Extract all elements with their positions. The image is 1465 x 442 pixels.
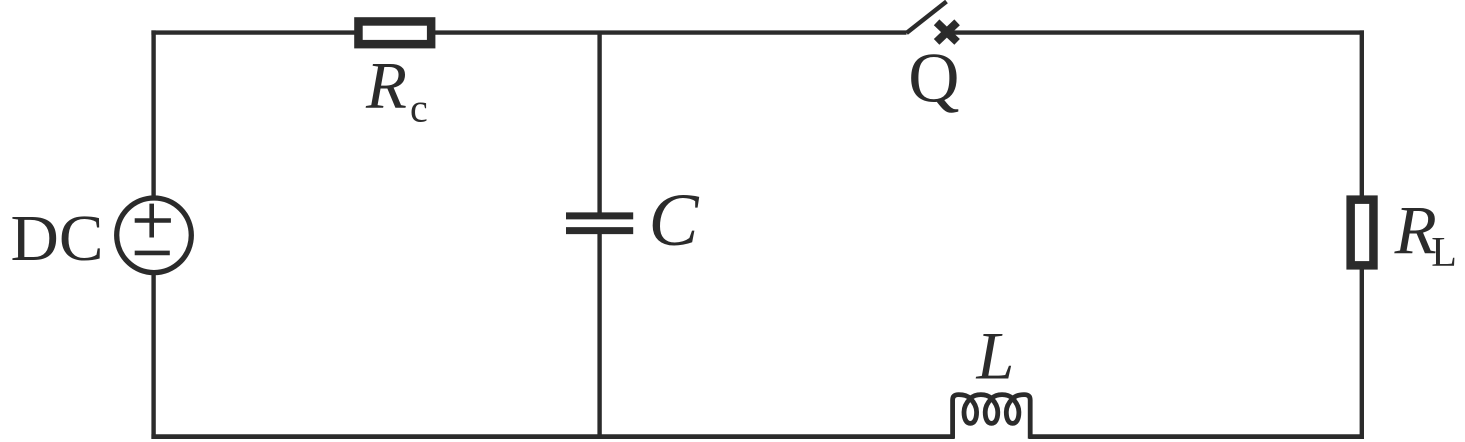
capacitor C bottom plate — [566, 227, 633, 234]
wire right vertical upper (top corner to RL) — [1360, 30, 1364, 199]
resistor Rc (hollow box) — [358, 21, 431, 44]
switch Q cross mark — [937, 22, 958, 42]
svg-text:C: C — [649, 179, 700, 262]
plus sign inside DC source — [135, 204, 171, 238]
wire bottom-left horizontal (DC- to inductor) — [151, 434, 954, 439]
svg-text:Q: Q — [908, 40, 959, 118]
svg-text:L: L — [976, 318, 1015, 394]
wire top-left horizontal (node from DC+ through Rc to node A) — [151, 30, 906, 34]
DC source V1 (circle symbol) — [117, 198, 192, 273]
wire capacitor branch lower (C bottom plate down to bottom wire) — [597, 232, 601, 437]
svg-text:L: L — [1431, 230, 1457, 276]
svg-text:c: c — [410, 86, 428, 131]
wire bottom-right horizontal (inductor to bottom-right corner) — [1029, 434, 1364, 439]
minus sign inside DC source — [135, 251, 170, 256]
wire left vertical lower (DC source bottom terminal) — [151, 273, 155, 439]
svg-text:DC: DC — [11, 202, 104, 275]
wire capacitor branch upper (node A down to C top plate) — [597, 33, 601, 214]
capacitor C top plate — [566, 212, 633, 219]
wire right vertical lower (RL to bottom corner) — [1360, 266, 1364, 439]
inductor L coil — [953, 395, 1031, 439]
svg-text:R: R — [365, 48, 407, 122]
switch Q blade — [907, 2, 947, 34]
wire left vertical upper (DC source top terminal) — [151, 30, 155, 198]
resistor RL (hollow box, vertical) — [1351, 200, 1374, 266]
wire top-right horizontal (switch to top-right corner) — [944, 30, 1364, 34]
